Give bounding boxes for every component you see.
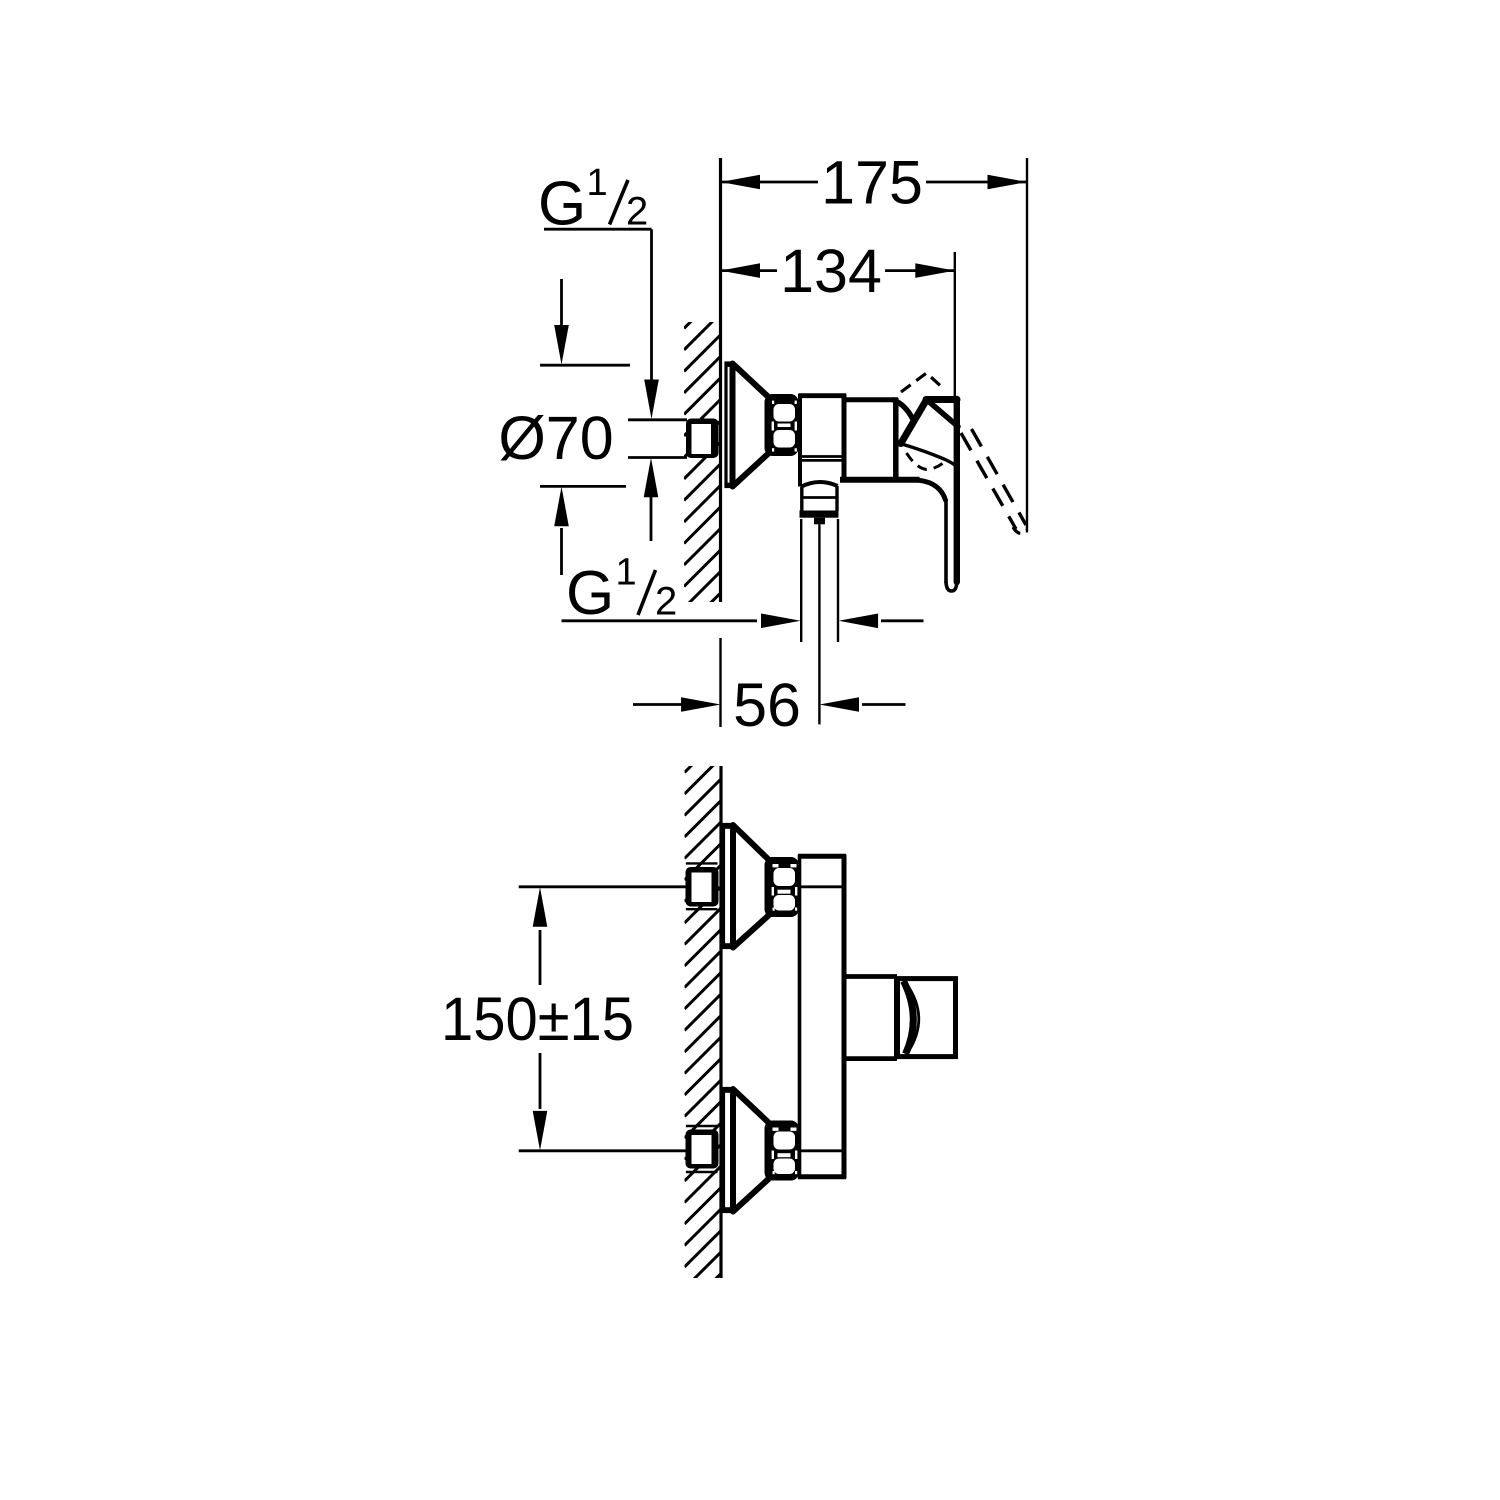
knob crescent (904, 981, 914, 1054)
wall (bottom view) (719, 766, 722, 1278)
mixer body (top view) (840, 398, 920, 480)
svg-text:56: 56 (733, 671, 801, 739)
upper escutcheon (bottom view) (724, 825, 734, 948)
node square-fitting extension lines (top view) (628, 420, 687, 458)
handle neck (bottom view) (846, 977, 897, 1059)
shower outlet (top view) (800, 482, 839, 524)
dimension 56 (633, 703, 906, 706)
label G1/2 (outlet, bottom) (566, 552, 677, 629)
lever handle raised position (dashed) (901, 373, 1027, 533)
svg-text:2: 2 (655, 580, 677, 624)
cartridge cap section (top view) (799, 394, 847, 487)
handle knob (bottom view) (897, 979, 956, 1057)
dimension 134 (954, 252, 956, 397)
hex nut (top view) (765, 394, 799, 456)
outlet thread extension lines G1/2 (800, 519, 802, 642)
dimension 150+-15 (539, 930, 542, 1109)
upper square union (bottom view) (686, 863, 718, 909)
svg-text:1: 1 (587, 162, 608, 204)
label G1/2 (wall union, top) (538, 162, 648, 239)
wire (719, 638, 721, 727)
dimension D70 (540, 279, 630, 575)
lower escutcheon (bottom view) (724, 1089, 734, 1212)
wall hatching (top view) (684, 292, 721, 651)
wall hatching (bottom view) (685, 736, 722, 1332)
escutcheon plate (top view) (726, 363, 733, 487)
mixer body plate (bottom view) (798, 855, 846, 1179)
wall union square (top view) (686, 419, 719, 459)
outlet axis extension line (818, 524, 820, 724)
wall (top view) (719, 158, 722, 602)
lower hex nut (bottom view) (765, 1121, 800, 1181)
lower square union (bottom view) (686, 1126, 718, 1172)
svg-text:134: 134 (780, 237, 882, 305)
dimension 175 (1026, 158, 1028, 533)
svg-text:150±15: 150±15 (441, 985, 634, 1053)
svg-text:175: 175 (821, 149, 923, 217)
svg-text:1: 1 (616, 552, 637, 594)
svg-text:Ø70: Ø70 (498, 404, 613, 472)
lever handle (top view, closed) (894, 399, 959, 591)
svg-text:G: G (566, 559, 614, 628)
escutcheon cone (top view) (733, 364, 771, 487)
svg-text:2: 2 (626, 190, 648, 234)
extension lines 150 dim (519, 887, 686, 1151)
upper hex nut (bottom view) (765, 857, 800, 917)
